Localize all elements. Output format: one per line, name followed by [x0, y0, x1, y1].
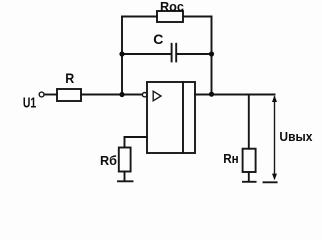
svg-text:R: R [65, 70, 74, 86]
svg-text:C: C [153, 31, 163, 47]
svg-text:Roc: Roc [160, 0, 184, 14]
svg-text:Rн: Rн [223, 152, 239, 166]
svg-text:Uвых: Uвых [279, 129, 313, 144]
svg-text:U1: U1 [23, 96, 36, 112]
svg-text:Rб: Rб [100, 154, 117, 168]
